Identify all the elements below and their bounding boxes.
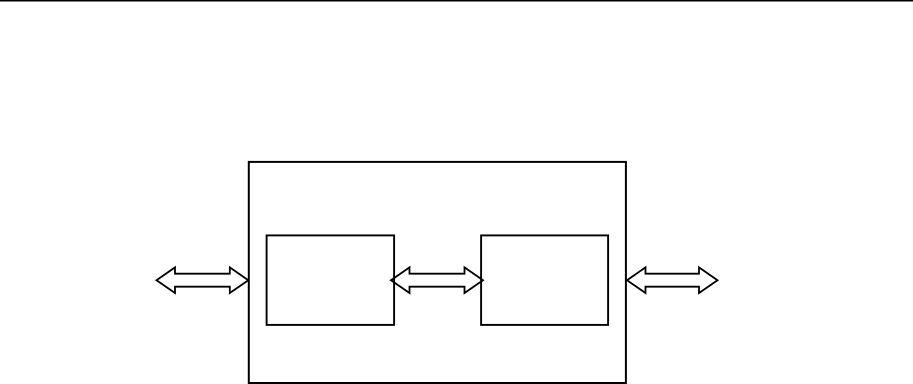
- double arrow right: [627, 267, 718, 293]
- inner box left: [267, 235, 395, 325]
- outer box: [249, 162, 626, 383]
- top rule: [0, 0, 913, 2]
- double arrow left: [157, 267, 249, 293]
- double arrow middle: [391, 267, 483, 293]
- inner box right: [481, 235, 608, 325]
